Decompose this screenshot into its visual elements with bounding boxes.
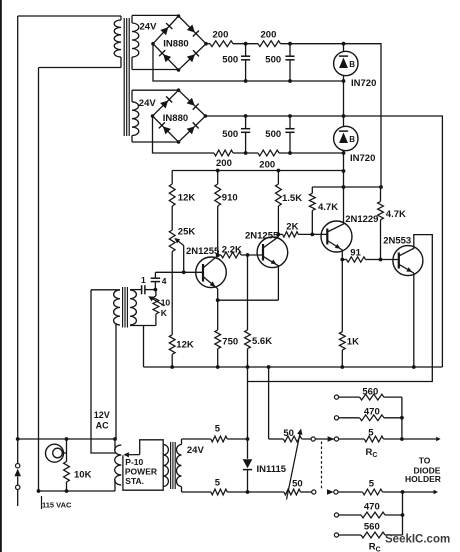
svg-text:200: 200 [216,158,232,169]
svg-text:200: 200 [259,159,275,170]
svg-text:5.6K: 5.6K [252,336,272,347]
svg-text:500: 500 [265,55,281,66]
svg-text:10K: 10K [74,469,92,480]
svg-text:50: 50 [292,478,303,489]
svg-text:AC: AC [96,420,109,430]
svg-text:5: 5 [369,478,375,489]
svg-text:5: 5 [215,477,221,488]
svg-text:12V: 12V [94,410,110,420]
svg-text:1.5K: 1.5K [282,193,302,204]
svg-text:IN1115: IN1115 [257,464,287,475]
svg-text:750: 750 [222,336,238,347]
svg-text:B: B [349,60,355,69]
svg-text:2K: 2K [286,221,298,232]
svg-text:470: 470 [364,407,380,418]
svg-text:2N1255: 2N1255 [186,246,220,257]
svg-text:P-10: P-10 [125,457,143,467]
svg-text:IN720: IN720 [350,153,375,164]
svg-text:2N553: 2N553 [383,235,411,246]
svg-text:4.7K: 4.7K [318,202,338,213]
svg-text:10: 10 [161,297,171,307]
svg-text:12K: 12K [178,192,196,203]
svg-text:24V: 24V [187,445,205,456]
svg-text:25K: 25K [178,226,196,237]
svg-text:4.7K: 4.7K [386,209,406,220]
svg-text:910: 910 [222,192,238,203]
svg-text:SeekIC.com: SeekIC.com [385,534,450,546]
svg-text:200: 200 [261,30,277,41]
svg-text:500: 500 [222,129,238,140]
svg-text:B: B [349,135,355,144]
svg-text:4: 4 [162,276,167,286]
svg-text:470: 470 [364,501,380,512]
svg-text:500: 500 [265,129,281,140]
svg-text:500: 500 [222,55,238,66]
svg-text:TO: TO [419,455,431,465]
svg-text:K: K [161,308,168,318]
svg-text:2.2K: 2.2K [222,244,242,255]
svg-text:5: 5 [368,428,374,439]
svg-text:HOLDER: HOLDER [405,474,441,484]
svg-text:STA.: STA. [125,476,144,486]
svg-text:24V: 24V [140,22,158,33]
svg-text:24V: 24V [139,98,157,109]
svg-text:12K: 12K [176,339,194,350]
svg-text:91: 91 [350,247,361,258]
svg-text:115 VAC: 115 VAC [42,501,72,510]
svg-text:560: 560 [362,386,378,397]
svg-text:200: 200 [213,30,229,41]
svg-text:2N1229: 2N1229 [345,214,378,225]
svg-text:IN880: IN880 [163,38,188,49]
svg-text:5: 5 [215,424,221,435]
svg-text:IN720: IN720 [351,78,376,89]
svg-text:2N1255: 2N1255 [245,230,279,241]
svg-text:POWER: POWER [125,466,157,476]
svg-text:1: 1 [141,275,146,285]
svg-text:560: 560 [364,522,380,533]
svg-text:1K: 1K [347,336,359,347]
svg-text:IN880: IN880 [163,113,188,124]
svg-text:50: 50 [283,428,294,439]
